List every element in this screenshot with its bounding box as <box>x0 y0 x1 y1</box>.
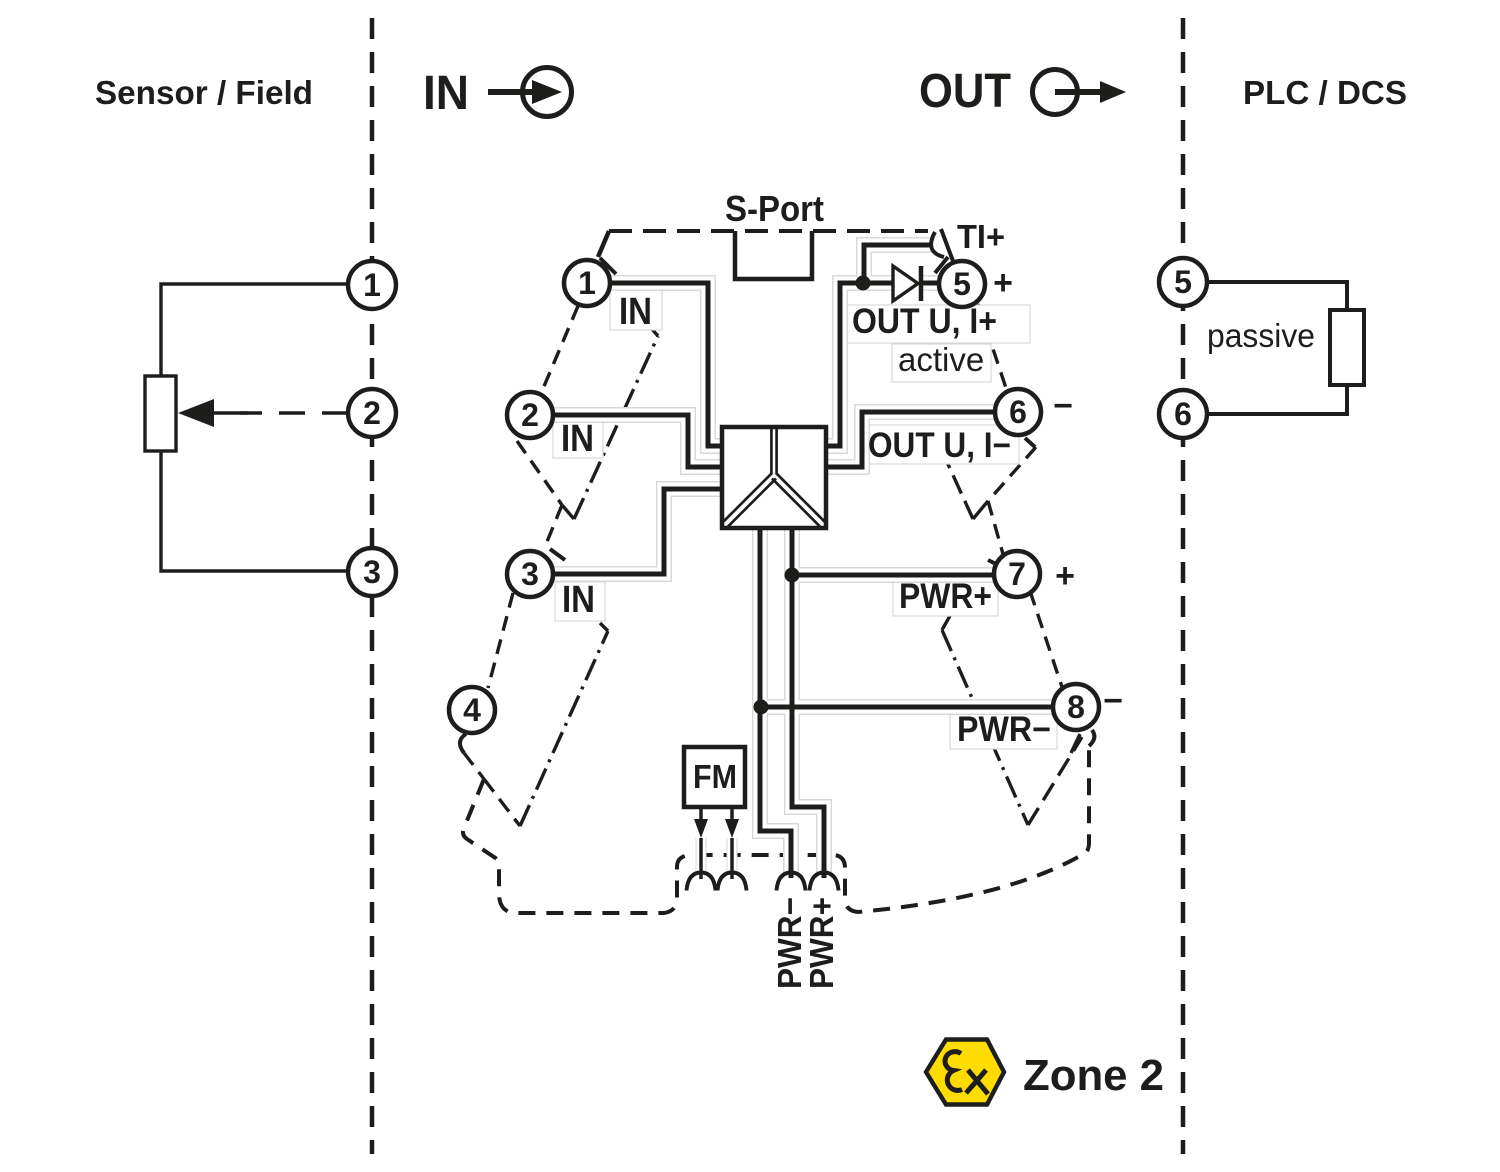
TI+ hook diagonal to terminal 5 <box>941 229 953 261</box>
wire casing white <box>552 245 1054 878</box>
svg-text:4: 4 <box>463 692 481 728</box>
passive load wire bottom <box>1207 385 1347 414</box>
S-Port bracket <box>735 231 812 279</box>
terminal 2 field <box>348 389 396 437</box>
svg-text:PLC / DCS: PLC / DCS <box>1243 74 1407 111</box>
cable dash: fork branch to terminal 3 <box>544 505 562 549</box>
terminal 8 <box>1053 684 1099 730</box>
label box OUT U I+ <box>847 305 1030 343</box>
cable dash: terminal 5 to terminal 6 (active) <box>978 304 1008 394</box>
chevron end at terminal 8 bottom <box>1071 734 1080 753</box>
tick at terminal 6 <box>1025 438 1035 447</box>
potentiometer wire bottom <box>161 451 348 571</box>
cable dash: terminal 3 to terminal 4 <box>488 593 513 688</box>
cable dash: fork branch to terminal 7 <box>988 501 1003 554</box>
terminal 6 plc <box>1159 390 1207 438</box>
label box PWR- <box>950 710 1057 749</box>
svg-text:3: 3 <box>521 556 539 592</box>
FM arrow right <box>730 807 734 820</box>
svg-text:−: − <box>1053 387 1073 425</box>
FM arrow left <box>699 807 703 820</box>
IN icon arrowhead <box>532 80 562 104</box>
svg-text:7: 7 <box>1008 556 1026 592</box>
wiper arrowhead <box>178 399 214 427</box>
svg-text:6: 6 <box>1009 394 1027 430</box>
wire PWR- vertical from isolator <box>760 526 791 878</box>
wiper arrow solid segment <box>213 411 248 414</box>
zone boundary dashed line left <box>370 18 375 1154</box>
wire diode cathode to terminal 5 <box>920 281 940 286</box>
potentiometer body <box>145 376 176 451</box>
terminal 4 <box>449 687 495 733</box>
potentiometer wire top <box>161 284 348 376</box>
svg-text:+: + <box>1055 557 1075 595</box>
chevron at PWR+ label <box>942 614 951 630</box>
svg-text:IN: IN <box>561 418 594 460</box>
shield cable path to bottom bus <box>463 747 1089 913</box>
OUT icon circle <box>1033 70 1078 115</box>
svg-text:S-Port: S-Port <box>725 188 824 229</box>
cable dash: terminal 4 to fork <box>464 753 484 779</box>
chevron end at IN label 1 <box>651 328 658 336</box>
passive load wire top <box>1207 282 1347 310</box>
svg-text:passive: passive <box>1207 317 1315 354</box>
terminal hook socket PWR+ <box>810 873 839 891</box>
junction dot at diode anode <box>856 276 871 291</box>
isolator symbol left diagonal double line <box>723 473 777 527</box>
svg-text:6: 6 <box>1174 396 1192 432</box>
label box IN 3 <box>555 582 605 621</box>
terminal 5 plc <box>1159 258 1207 306</box>
label box active <box>892 344 991 382</box>
terminal hook socket 1 <box>687 873 716 891</box>
svg-text:+: + <box>993 264 1013 302</box>
terminal 3 <box>507 551 553 597</box>
terminal 6 <box>995 389 1041 435</box>
zone boundary dashed line right <box>1181 18 1186 1154</box>
cable dash: terminal 1 to terminal 2 <box>542 306 578 391</box>
terminal 2 <box>507 392 553 438</box>
Ex hexagon <box>926 1040 1004 1105</box>
wire isolator output to diode and terminal 5 <box>824 283 893 446</box>
svg-text:PWR−: PWR− <box>957 710 1051 749</box>
svg-text:IN: IN <box>423 67 469 120</box>
cable dash: terminal 7 to terminal 8 <box>1030 591 1062 687</box>
wire from terminal 1 to isolator <box>609 283 724 446</box>
FM box <box>684 747 745 807</box>
svg-text:Zone 2: Zone 2 <box>1023 1052 1164 1100</box>
svg-text:OUT U, I+: OUT U, I+ <box>852 302 997 341</box>
svg-text:2: 2 <box>363 395 381 431</box>
cable dash-dot arm up to IN label 1 <box>562 505 574 519</box>
svg-text:IN: IN <box>619 291 652 333</box>
svg-text:3: 3 <box>363 554 381 590</box>
svg-text:−: − <box>1103 682 1123 720</box>
diode D1 <box>893 266 918 301</box>
wiper dashed wire from terminal 2 left <box>240 411 348 414</box>
cable dash-dot arm to OUT U I- label <box>973 501 988 519</box>
TI+ terminal hook <box>931 232 944 257</box>
IN icon line <box>488 89 536 95</box>
wire from terminal 3 to isolator <box>553 489 724 574</box>
terminal 1 <box>564 260 610 306</box>
wire to terminal 8 PWR- <box>761 705 1054 710</box>
isolator symbol vertical double line <box>771 429 776 474</box>
tick at terminal 7 <box>988 560 1002 567</box>
OUT icon line <box>1055 89 1102 95</box>
Ex epsilon glyph <box>945 1052 962 1091</box>
cable dash-dot arm V to IN label 3 <box>484 779 520 826</box>
svg-text:1: 1 <box>578 265 596 301</box>
wire isolator output minus to terminal 6 <box>824 412 996 467</box>
svg-text:OUT U, I−: OUT U, I− <box>868 426 1011 465</box>
cable dash: terminal 2 to fork <box>517 441 562 505</box>
junction dot PWR+ <box>785 568 800 583</box>
label box IN 2 <box>553 419 603 458</box>
IN icon circle <box>523 68 572 117</box>
chevron end at OUT U I- label <box>947 455 954 462</box>
tick at terminal 1 <box>600 258 616 274</box>
svg-text:8: 8 <box>1067 689 1085 725</box>
svg-text:active: active <box>898 341 984 378</box>
isolator symbol right diagonal double line <box>772 473 826 527</box>
S-Port corner link to terminal 1 <box>598 231 609 257</box>
OUT icon arrowhead <box>1100 81 1126 103</box>
svg-text:TI+: TI+ <box>957 218 1005 255</box>
svg-text:FM: FM <box>693 758 737 795</box>
TI+ hook tick <box>935 257 948 273</box>
tick at terminal 3 <box>550 549 565 560</box>
wire PWR+ vertical from isolator <box>792 526 824 878</box>
wire casing outlines <box>552 245 1054 878</box>
hook at terminal 4 bottom <box>460 734 466 753</box>
terminal hook socket 2 <box>718 873 747 891</box>
diode D1 cathode bar <box>919 266 924 301</box>
svg-text:Sensor / Field: Sensor / Field <box>95 74 313 111</box>
wire from terminal 2 to isolator <box>552 415 724 467</box>
terminal 1 field <box>348 261 396 309</box>
passive load resistor <box>1330 310 1364 385</box>
hook at terminal 8 bottom <box>1089 730 1094 746</box>
chevron end at IN label 3 <box>600 623 608 631</box>
label box IN 1 <box>610 288 662 330</box>
terminal 7 <box>994 551 1040 597</box>
Ex x glyph <box>966 1070 988 1094</box>
label box OUT U I- <box>862 425 1019 464</box>
terminal 3 field <box>348 548 396 596</box>
junction dot PWR- <box>754 700 769 715</box>
svg-text:1: 1 <box>363 267 381 303</box>
wire to terminal 7 PWR+ <box>792 573 995 578</box>
terminal 5 <box>939 261 985 307</box>
cable dash-dot V arm from PWR+ label to terminal 8 <box>942 630 1028 825</box>
terminal hook socket PWR- <box>777 873 806 891</box>
wire TI+ branch <box>864 245 933 283</box>
svg-text:5: 5 <box>1174 264 1192 300</box>
svg-text:OUT: OUT <box>919 65 1011 118</box>
label box PWR+ <box>893 577 998 616</box>
svg-text:PWR+: PWR+ <box>899 577 992 616</box>
cable dash: terminal 6 to fork <box>988 447 1036 501</box>
svg-text:2: 2 <box>521 397 539 433</box>
isolator device box <box>722 427 826 528</box>
S-Port dashed net line <box>609 229 928 233</box>
svg-text:PWR+: PWR+ <box>803 897 840 989</box>
svg-text:IN: IN <box>562 579 595 621</box>
svg-text:5: 5 <box>953 266 971 302</box>
